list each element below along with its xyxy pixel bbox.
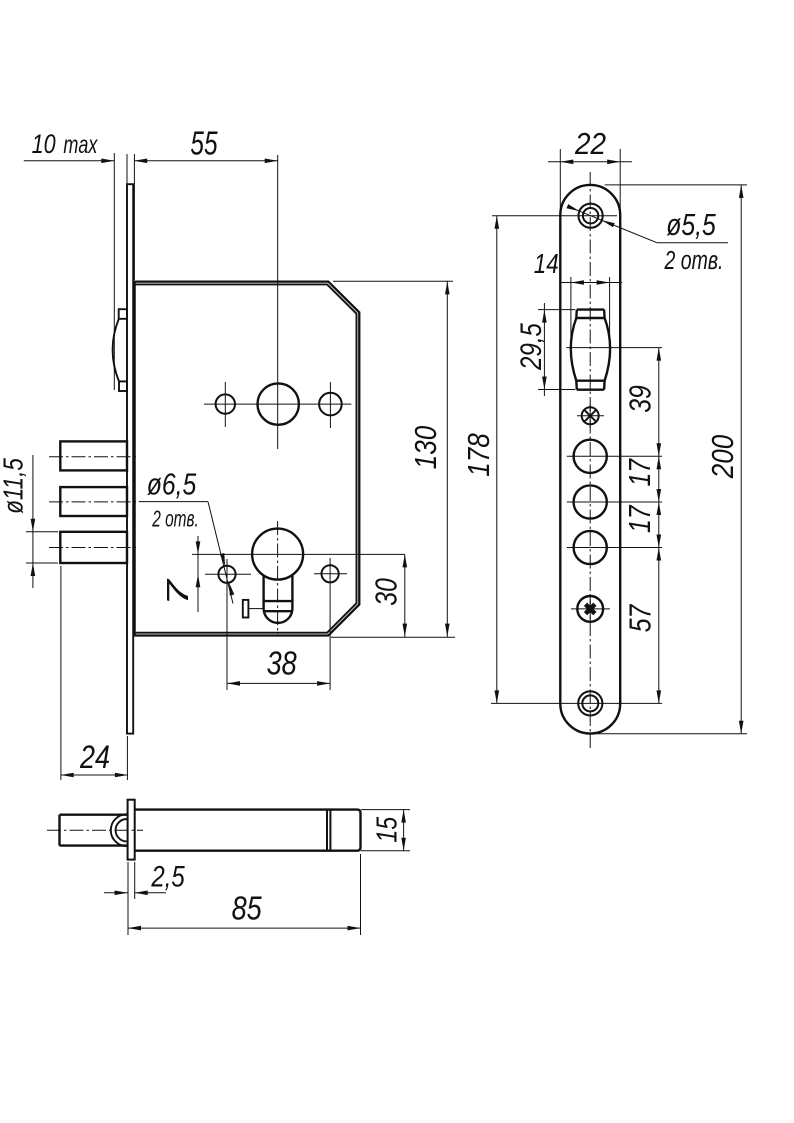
cylinder hole circle [252,529,303,580]
svg-text:130: 130 [409,426,444,469]
plate hole 2 [574,485,607,518]
latch bolt opening top edge [577,308,604,310]
bottom fixing screw (phillips) [577,596,603,622]
dimension 130 [446,281,448,637]
top fixing screw (cross) [582,407,599,424]
auxiliary latch curved face [113,319,119,382]
dimension ø11,5 [26,531,58,533]
deadbolt prong 3 centerline [49,547,136,549]
lock body outer outline [135,282,360,636]
deadbolt prong 3 [60,532,127,563]
dimension 29,5 [538,309,575,311]
svg-text:2,5: 2,5 [150,859,185,893]
side view deadbolt [60,814,128,816]
latch bolt chamfer line upper [576,317,604,319]
side view lock body bar [135,810,361,851]
face plate vertical centerline [589,172,591,748]
fixing hole right (ø6.5) [322,565,339,582]
dimension 2,5 [104,892,128,894]
deadbolt prong 2 centerline [49,501,136,503]
plate top extension line (200) [605,184,747,186]
top screw hole horizontal centerline [492,215,617,217]
svg-text:24: 24 [79,740,110,776]
svg-text:200: 200 [706,435,741,479]
svg-text:85: 85 [232,891,262,927]
latch bolt chamfer line lower [576,380,604,382]
center hole vertical centerline / 55 extension [277,155,279,449]
dimension 7 [197,536,199,612]
plate bottom extension line (200) [593,733,747,735]
plate hole 3 [574,531,607,564]
plate hole 1 [574,440,607,473]
auxiliary latch bottom tab [119,381,127,391]
svg-text:38: 38 [267,646,297,682]
svg-text:2 отв.: 2 отв. [151,506,198,532]
svg-text:14: 14 [534,249,559,280]
faceplate left edge extension line [126,154,128,185]
latch bolt right profile [604,310,610,390]
svg-text:ø6,5: ø6,5 [147,467,197,501]
dimension 38 [227,682,330,684]
dimension 15 [361,809,410,811]
dimension 10 max [24,160,115,162]
svg-text:17: 17 [622,504,656,533]
hub hole center large [258,383,299,424]
dimension 85 [128,927,361,929]
top screw hole countersink [579,204,603,228]
svg-text:22: 22 [574,126,606,161]
dimension 24 [61,774,128,776]
svg-text:10: 10 [32,130,56,160]
horizontal centerline through cylinder (7/30 reference) [192,553,405,555]
cylinder keyway bottom arc [264,609,293,623]
hub holes horizontal centerline [204,403,351,405]
latch bolt opening bottom edge [577,389,604,391]
deadbolt prong 2 [60,487,127,516]
cylinder keyway left edge [262,576,264,609]
svg-text:178: 178 [462,433,497,476]
dimension 200 [740,185,742,734]
deadbolt prong 1 centerline [49,456,136,458]
dimension 55 [134,160,278,162]
latch bolt left profile [571,310,577,390]
chained dimensions 39/17/17/57 [658,348,660,704]
auxiliary latch top tab [119,309,127,319]
svg-text:ø5,5: ø5,5 [666,207,716,241]
dimension 22 [548,161,632,163]
hub hole right small [319,393,342,416]
dimension 14 [560,282,622,284]
bottom screw hole horizontal centerline [491,702,662,704]
svg-text:max: max [63,130,98,159]
latch centerline (39 reference) [566,347,662,349]
leader ø6,5 2 otv. [139,501,208,503]
right small hole vertical centerline [329,382,331,428]
bottom screw hole [582,695,598,711]
svg-text:39: 39 [623,385,657,413]
stop pin [243,600,249,618]
svg-text:2 отв.: 2 отв. [664,245,724,274]
svg-text:7: 7 [161,578,196,606]
svg-text:55: 55 [190,126,218,162]
stop pin link line [248,608,263,610]
fixing hole left centerline [205,573,251,575]
bottom screw hole countersink [578,691,602,715]
left small hole vertical centerline [224,382,226,427]
cylinder keyway chord line lower [264,610,292,612]
fixing hole right centerline [314,573,347,575]
hub hole left small [216,394,235,413]
lock body inner fold line [135,284,357,632]
cylinder keyway chord line upper [264,600,293,602]
svg-text:57: 57 [623,603,657,632]
deadbolt prong 1 [60,441,127,470]
top screw hole [583,208,598,223]
leader ø5,5 2 otv. [570,207,657,242]
svg-text:30: 30 [369,578,403,606]
fixing hole left (ø6.5) [218,566,235,583]
dimension 30 [404,554,406,637]
deadbolt collar arcs [111,814,127,846]
cylinder vertical centerline [277,521,279,634]
cylinder keyway right edge [291,576,293,609]
svg-text:29,5: 29,5 [513,322,547,370]
svg-text:15: 15 [370,816,403,842]
faceplate (left view, edge-on) [127,184,133,733]
svg-text:17: 17 [622,458,656,487]
dimension 178 [496,216,498,704]
side view bolt centerline [47,829,143,831]
face plate outline (right view) [560,185,620,734]
side view faceplate [128,800,135,860]
svg-text:ø11,5: ø11,5 [0,457,29,513]
side view chamfer fold lines [326,810,328,851]
